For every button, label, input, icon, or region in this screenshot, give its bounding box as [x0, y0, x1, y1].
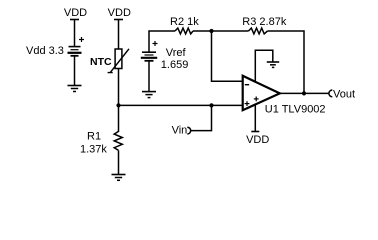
ground (R1): [112, 175, 126, 181]
wire op-amp V- supply pin to ground: [255, 50, 272, 82]
wire VDD to thermistor: [118, 20, 120, 50]
thermistor NTC: [108, 49, 129, 73]
wire battery V2 to ground: [148, 62, 150, 92]
wire divider node to op-amp non-inverting input: [119, 104, 244, 106]
port Vout: [329, 90, 332, 97]
svg-text:NTC: NTC: [90, 56, 112, 68]
ground (battery V1): [68, 86, 82, 92]
resistor R1 1.37k: [114, 131, 122, 150]
junction (Vin tap): [209, 103, 213, 107]
svg-text:1.37k: 1.37k: [80, 144, 107, 156]
wire R1 to ground: [118, 150, 120, 174]
svg-text:R2 1k: R2 1k: [170, 16, 199, 28]
power flag VDD (op-amp supply): [246, 132, 269, 147]
battery V2 Vref: [141, 41, 158, 61]
svg-text:Vref: Vref: [166, 47, 187, 59]
svg-text:VDD: VDD: [108, 7, 131, 19]
power flag VDD (NTC branch): [108, 7, 131, 19]
svg-text:Vout: Vout: [333, 89, 355, 101]
op-amp U1: [243, 76, 280, 110]
wire VDD to battery V1: [74, 20, 76, 47]
svg-text:Vin: Vin: [172, 125, 188, 137]
svg-text:U1 TLV9002: U1 TLV9002: [265, 104, 326, 116]
junction (output/feedback): [302, 91, 306, 95]
svg-text:R3 2.87k: R3 2.87k: [242, 16, 287, 28]
svg-text:VDD: VDD: [246, 134, 269, 146]
svg-text:R1: R1: [87, 130, 101, 142]
resistor R2 1k: [175, 28, 193, 34]
svg-text:1.659: 1.659: [161, 59, 189, 71]
svg-text:VDD: VDD: [64, 7, 87, 19]
wire feedback node to op-amp inverting input: [212, 31, 244, 81]
wire R3 to output node: [268, 31, 305, 93]
wire Vin port to node: [191, 105, 212, 130]
wire op-amp output to Vout port: [280, 92, 329, 94]
battery V1 Vdd 3.3: [68, 37, 85, 56]
ground (op-amp V-): [267, 62, 279, 67]
port Vin: [187, 127, 190, 134]
junction (R2/R3 feedback node): [209, 29, 213, 33]
wire op-amp V+ supply pin to VDD: [254, 104, 256, 131]
wire R2 to R3: [193, 30, 249, 32]
junction node Vin (divider output): [116, 103, 120, 107]
wire Vref battery top to R2: [149, 31, 175, 52]
wire thermistor to R1 (through node Vin): [118, 68, 120, 132]
resistor R3 2.87k: [249, 28, 268, 34]
power flag VDD (left battery): [64, 7, 87, 19]
svg-text:Vdd 3.3: Vdd 3.3: [26, 45, 64, 57]
wire battery V1 to ground: [74, 57, 76, 86]
ground (battery V2): [142, 92, 156, 98]
